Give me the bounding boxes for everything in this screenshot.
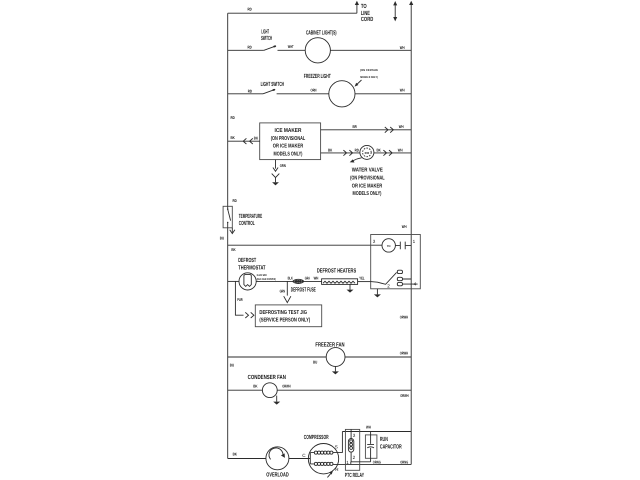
label WH pre heater [314,276,319,281]
label BK post valve [377,147,381,152]
winding start [314,451,333,454]
label WH above timer [402,224,407,229]
wire icemaker ground drop [275,160,277,169]
label TD [387,244,391,248]
label pin 2 PTC [353,455,356,460]
svg-text:PTC RELAY: PTC RELAY [345,472,364,479]
lamp cabinet lights [305,38,330,63]
label BR upper [353,124,357,129]
node annotation arrow water valve [353,158,361,161]
label RD row1 [248,45,252,50]
svg-text:(SERVICE PERSON ONLY): (SERVICE PERSON ONLY) [259,316,310,323]
ground condenser fan [276,396,278,402]
svg-text:GRN: GRN [280,163,286,168]
wire top line to line cord [228,3,357,13]
svg-text:(ON PROVISIONAL: (ON PROVISIONAL [271,135,306,142]
svg-text:C: C [302,453,306,458]
wire condenser fan row left [228,389,263,391]
svg-text:WH: WH [402,224,407,229]
wire row2 left [228,93,263,95]
capacitor run capacitor [367,432,374,462]
label pin 3 PTC [353,433,356,438]
svg-text:WATER VALVE: WATER VALVE [352,167,383,173]
node left chevrons icemaker [243,138,253,144]
svg-text:2: 2 [387,283,390,288]
svg-text:RUN: RUN [380,436,388,443]
label CABINET LIGHTS [306,30,337,37]
svg-text:(ON PROVISIONAL: (ON PROVISIONAL [350,175,385,182]
svg-text:CABINET LIGHT(S): CABINET LIGHT(S) [306,30,337,37]
svg-text:RD: RD [355,147,359,152]
svg-text:DEFROSTING TEST JIG: DEFROSTING TEST JIG [259,310,307,316]
wire condenser fan row right [277,389,411,391]
node contact pads [397,270,402,286]
svg-text:ORWH: ORWH [282,384,290,389]
svg-text:BU: BU [230,363,234,368]
ground heaters [349,284,351,289]
label S terminal [335,445,338,450]
svg-text:(ON CERTAIN: (ON CERTAIN [360,68,378,72]
svg-text:BK: BK [254,135,258,140]
svg-text:LIGHT SWITCH: LIGHT SWITCH [261,81,284,88]
svg-text:WH: WH [399,124,404,129]
svg-text:WH: WH [366,425,371,430]
label BK icemaker wire [254,135,258,140]
label ICE MAKER text [271,128,306,158]
capacitor timer cap [395,242,411,250]
wire row2 mid [277,93,329,95]
svg-text:MODELS ONLY): MODELS ONLY) [274,150,303,157]
svg-text:WHT: WHT [288,44,294,49]
node line cord double arrow [394,4,396,18]
capacitor box run capacitor [365,435,377,458]
svg-text:MODELS ONLY): MODELS ONLY) [360,75,378,79]
label RD pre valve [355,147,359,152]
label BK below defrost line [231,247,235,252]
label ORNG below cap [373,459,381,464]
node big open arrow [284,296,291,302]
label DEFROST HEATERS [317,268,356,275]
wire pads to rail [403,279,418,284]
label BK lower [328,147,332,152]
label RD above temp control [233,198,237,203]
label ORWH freezer fan right [400,350,408,355]
motor freezer fan [326,348,345,367]
label DEFROSTING TEST JIG [259,310,310,323]
label valve coil [365,151,370,155]
label DEFROST FUSE [291,287,316,294]
wire pin1 line to cap [351,462,371,465]
label WH upper right [399,124,404,129]
svg-text:GRN: GRN [280,288,286,293]
wire thermostat tap to test jig [235,281,243,315]
label LIGHT SWITCH row2 [261,81,284,88]
svg-text:GRA: GRA [305,276,310,281]
node right chevrons post valve [383,150,392,156]
svg-text:RD: RD [233,198,237,203]
svg-text:1: 1 [413,239,416,244]
label PUR [237,297,243,302]
label DEFROST THERMOSTAT [238,257,266,272]
label WH compressor [366,425,371,430]
timer box defrost timer [371,235,421,289]
wire right rail [410,3,412,464]
svg-text:R: R [335,467,339,472]
label pin 2 [387,283,390,288]
svg-text:CONDENSER FAN: CONDENSER FAN [248,374,286,381]
node annotation arrow to freezer light [356,80,362,85]
node right chevrons pre valve [343,150,352,156]
wire icemaker to left rail [228,140,260,142]
wire WH line to rail [342,431,411,433]
label PTC RELAY [345,472,364,479]
svg-text:OR ICE MAKER: OR ICE MAKER [352,184,382,190]
wire S to PTC [333,432,342,453]
label LIGHT SWITCH row1 [261,29,272,43]
label pin 1 [413,239,416,244]
wire row2 right [355,93,411,95]
node right rail top arrow [409,1,413,5]
label WH row2 [400,87,405,92]
svg-text:ORNG: ORNG [400,459,408,464]
ground freezer fan [334,366,336,371]
node line cord arrow [355,1,359,5]
svg-text:YEL: YEL [359,275,365,280]
node annotation arrow compressor [327,473,331,478]
label GRN fuse tap [280,288,286,293]
svg-text:DEFROST: DEFROST [238,257,256,264]
label pin 1 PTC [346,460,349,465]
ground icemaker [272,174,280,183]
wire R bottom line [333,463,411,465]
svg-text:WH: WH [314,276,319,281]
wire compressor row left [228,458,266,460]
node open arrow down [273,168,278,172]
label C terminal [302,453,306,458]
relay box PTC [345,429,359,470]
label pin 3 [373,239,376,244]
label TEMPERATURE CONTROL [239,213,263,227]
wire freezer fan row left [228,356,327,358]
thermostat defrost thermostat [239,273,256,290]
label BU freezer fan [313,359,317,364]
label TO LINE CORD [361,3,374,23]
label WHT row1 [288,44,294,49]
label ORN row2 [311,88,317,93]
wire pin3 stub [350,429,352,438]
svg-text:DEFROST FUSE: DEFROST FUSE [291,287,316,294]
wire temp control down arrow [231,228,233,233]
switch light switch row2 [263,89,275,93]
wire pin2 stub [350,452,352,462]
label BK compressor row [233,451,237,456]
svg-text:BLK: BLK [288,276,293,281]
svg-text:1: 1 [346,460,349,465]
label ON CERTAIN MODELS ONLY [360,68,378,79]
wire icemaker lower right [321,152,360,154]
svg-text:ORWH: ORWH [400,393,408,398]
label pin 4 [414,282,417,287]
svg-text:WH: WH [398,147,403,152]
wire freezer fan row right [345,356,411,358]
label CONDENSER FAN [248,374,286,381]
svg-text:RD: RD [248,45,252,50]
wire fuse to heaters [303,280,321,282]
svg-text:OVERLOAD: OVERLOAD [266,471,289,478]
svg-text:4: 4 [414,282,417,287]
svg-text:LINE: LINE [361,10,370,17]
ground timer [376,289,378,295]
label BU left rail [230,363,234,368]
label GRN [280,163,286,168]
svg-text:TEMPERATURE: TEMPERATURE [239,213,263,220]
switch timer contacts [371,272,397,284]
node right chevrons upper [385,127,394,133]
wire row1 left [228,49,264,51]
fuse defrost fuse [293,279,303,283]
svg-text:ORN: ORN [311,88,317,93]
svg-text:FREEZER FAN: FREEZER FAN [315,341,344,348]
label RD top [248,7,252,12]
svg-text:RD: RD [231,115,235,120]
label ORWH condenser right [400,393,408,398]
svg-text:CONTROL: CONTROL [239,220,255,227]
wire icemaker upper right [321,129,412,131]
overload protector [266,447,289,470]
svg-text:RD: RD [248,7,252,12]
svg-text:2: 2 [353,455,356,460]
label RUN CAPACITOR [380,436,402,451]
svg-text:ORNG: ORNG [373,459,381,464]
svg-text:WH: WH [400,45,405,50]
label BU left of rail [220,236,224,241]
svg-text:BU: BU [313,359,317,364]
label RD row2 [248,88,252,93]
svg-text:3: 3 [353,433,356,438]
wire fuse tap down [286,281,288,295]
svg-text:3: 3 [373,239,376,244]
label GRA [305,276,310,281]
svg-text:OR ICE MAKER: OR ICE MAKER [273,144,303,150]
wire rail to defrost timer motor [228,244,382,246]
box defrosting test jig [255,305,321,327]
svg-text:BK: BK [231,247,235,252]
svg-text:BK: BK [253,384,257,389]
svg-text:ORWH: ORWH [400,350,408,355]
label tiny wire note [257,273,276,281]
label COMPRESSOR [304,434,329,441]
wire row1 mid [278,49,306,51]
label ORNG bottom right [400,459,408,464]
motor TD defrost timer motor [382,239,395,252]
svg-text:(BLK AND COPPER): (BLK AND COPPER) [257,277,276,281]
label RD left rail [231,115,235,120]
node right chevrons test jig [245,312,254,318]
wire thermostat to fuse [256,280,293,282]
switch light switch row1 [264,46,276,50]
svg-text:MODELS ONLY): MODELS ONLY) [353,190,382,197]
svg-text:BK: BK [377,147,381,152]
svg-text:BU: BU [220,236,224,241]
label WH row1 [400,45,405,50]
wire valve to rail [374,152,411,154]
svg-text:THERMOSTAT: THERMOSTAT [238,265,265,272]
svg-text:PUR: PUR [237,297,243,302]
svg-text:S: S [335,445,338,450]
svg-text:CAPACITOR: CAPACITOR [380,443,402,450]
label WATER VALVE text [350,167,385,197]
icemaker box [260,123,321,160]
svg-text:BK: BK [233,451,237,456]
label BK rail [231,135,235,140]
label BK condenser [253,384,257,389]
label BLK [288,276,293,281]
switch temperature control [223,206,232,228]
label WH post valve [398,147,403,152]
label ORWH condenser [282,384,290,389]
label FREEZER FAN [315,341,344,348]
motor compressor [308,444,338,474]
svg-text:ICE MAKER: ICE MAKER [275,128,302,134]
svg-text:000: 000 [365,151,370,155]
wire left rail [227,13,229,458]
svg-text:ORWH: ORWH [400,315,408,320]
svg-text:BK: BK [328,147,332,152]
svg-text:SWITCH: SWITCH [261,35,272,42]
svg-text:TO: TO [361,3,367,10]
relay PTC element [348,439,353,453]
svg-text:DEFROST HEATERS: DEFROST HEATERS [317,268,356,275]
solenoid water valve [360,145,374,159]
svg-text:BR: BR [353,124,357,129]
wire C into windings [308,453,314,464]
lamp freezer light [329,81,355,107]
winding run [314,462,333,465]
svg-text:CORD: CORD [361,16,374,23]
label R terminal [335,467,339,472]
motor condenser fan [262,383,277,398]
wire row1 right [330,49,411,51]
svg-text:TD: TD [387,244,391,248]
resistor defrost heaters [322,279,358,285]
wire heaters to timer [358,281,371,283]
label YEL [359,275,365,280]
svg-text:BK: BK [231,135,235,140]
svg-text:RD: RD [248,88,252,93]
label ORWH rail upper [400,315,408,320]
svg-text:WH: WH [400,87,405,92]
svg-text:LIGHT: LIGHT [261,29,269,36]
label FREEZER LIGHT [304,73,331,80]
label OVERLOAD [266,471,289,478]
svg-text:FREEZER LIGHT: FREEZER LIGHT [304,73,331,80]
wire rail to thermostat [228,280,239,282]
wire overload to compressor [289,458,309,460]
svg-text:COMPRESSOR: COMPRESSOR [304,434,329,441]
